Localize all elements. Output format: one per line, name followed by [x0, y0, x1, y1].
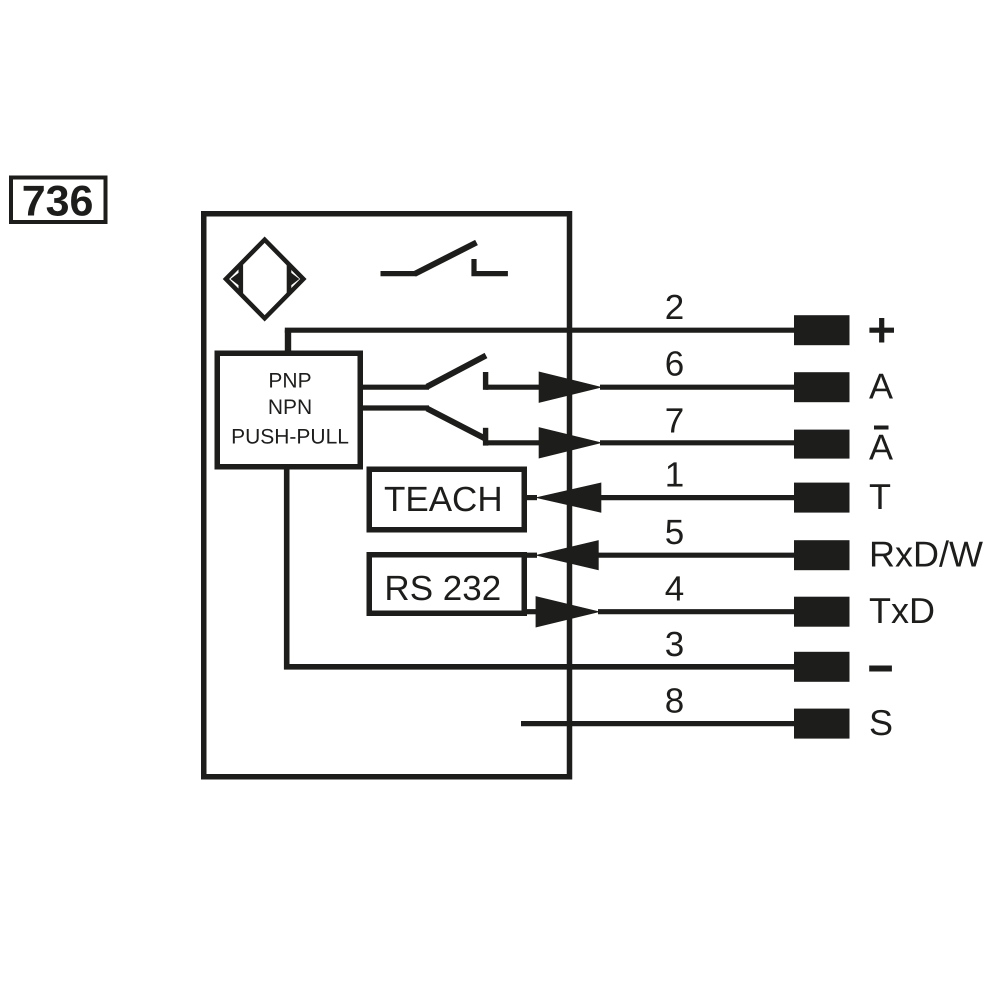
output A switch contact — [483, 372, 488, 390]
emitter triangle left — [231, 272, 240, 286]
terminal pad 1 — [794, 483, 850, 513]
terminal pad 3 — [794, 652, 850, 682]
output Abar switch lever — [427, 409, 485, 439]
wire 5 outer — [597, 553, 795, 558]
output A lead — [360, 385, 429, 390]
svg-text:TxD: TxD — [869, 590, 935, 631]
label Abar macron — [874, 426, 889, 430]
svg-text:PUSH-PULL: PUSH-PULL — [231, 426, 349, 449]
terminal pad 5 — [794, 540, 850, 570]
svg-text:6: 6 — [665, 345, 684, 384]
arrow 1 (into TEACH) — [535, 483, 601, 513]
arrow 6 — [539, 372, 603, 403]
svg-text:A: A — [869, 427, 893, 468]
terminal pad 6 — [794, 372, 850, 402]
svg-text:RxD/W: RxD/W — [869, 534, 983, 575]
arrow 5 (into RS232) — [535, 540, 599, 570]
svg-text:3: 3 — [665, 625, 684, 664]
output Abar lead — [360, 405, 429, 410]
diamond left chord — [239, 265, 244, 294]
svg-text:A: A — [869, 366, 893, 407]
wire 7 inner — [486, 440, 541, 445]
arrow 4 (out of RS232) — [536, 596, 601, 627]
svg-text:8: 8 — [665, 682, 684, 721]
output Abar switch contact — [483, 428, 488, 446]
PNP output block box — [217, 353, 360, 467]
TEACH box — [369, 469, 524, 530]
svg-text:PNP: PNP — [268, 370, 311, 393]
main switch lever — [415, 243, 477, 275]
receiver triangle right — [290, 272, 299, 286]
diamond right chord — [287, 265, 292, 294]
wire 8 — [521, 721, 795, 726]
sensor body outline — [204, 214, 570, 777]
wire junction vertical to PNP box — [285, 330, 291, 356]
svg-text:2: 2 — [665, 288, 684, 327]
terminal pad 8 — [794, 709, 850, 739]
wire 6 inner — [486, 385, 541, 390]
wire 1 outer — [599, 495, 795, 500]
svg-text:TEACH: TEACH — [384, 480, 503, 519]
wire 1 stub — [524, 495, 537, 500]
label plus — [869, 318, 894, 343]
main switch contact — [471, 259, 508, 276]
svg-text:S: S — [869, 702, 893, 743]
optical sensor symbol: diamond — [226, 240, 304, 319]
terminal pad 2 — [794, 315, 850, 345]
figure number box 736 — [11, 178, 106, 223]
label minus — [869, 666, 892, 672]
wire 7 outer — [600, 440, 795, 445]
svg-text:4: 4 — [665, 570, 684, 609]
svg-text:5: 5 — [665, 513, 684, 552]
terminal pad 7 — [794, 430, 850, 459]
svg-text:736: 736 — [22, 178, 94, 226]
wire 6 outer — [600, 385, 795, 390]
arrow 7 — [539, 427, 603, 458]
output A switch lever — [427, 356, 486, 387]
svg-text:NPN: NPN — [268, 396, 312, 419]
wire 4 stub — [524, 609, 537, 614]
terminal pad 4 — [794, 597, 850, 627]
svg-text:RS 232: RS 232 — [384, 569, 501, 608]
wire 4 outer — [598, 609, 795, 614]
svg-text:7: 7 — [665, 402, 684, 441]
wire 5 stub — [524, 553, 537, 558]
main switch lead — [381, 271, 417, 276]
wire 3 vertical from PNP box to elbow and horizontal — [287, 464, 795, 667]
wire 2 horizontal — [285, 328, 795, 333]
RS 232 box — [369, 555, 524, 614]
svg-text:1: 1 — [665, 456, 684, 495]
svg-text:T: T — [869, 476, 891, 517]
